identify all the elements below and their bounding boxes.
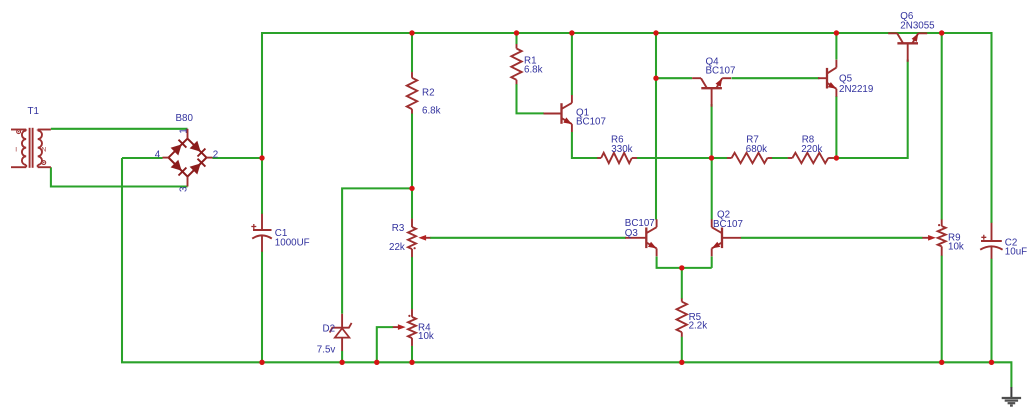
potentiometer R3 22k [408, 219, 430, 258]
svg-text:B80: B80 [176, 113, 194, 124]
wire Q2 emitter join [711, 257, 713, 268]
svg-text:10k: 10k [948, 241, 964, 252]
junction top rail R9 [939, 30, 944, 35]
resistor R7 680k [727, 153, 772, 163]
wire R8 to node [833, 157, 836, 159]
resistor R2 6.8k [407, 72, 417, 114]
svg-text:R2: R2 [422, 87, 435, 98]
wire node to R7 [712, 157, 728, 159]
svg-text:BC107: BC107 [706, 66, 736, 77]
svg-text:N: N [42, 146, 47, 153]
svg-text:R3: R3 [392, 223, 405, 234]
bridge diode D BL (4 to 3) [171, 160, 182, 171]
transistor Q6 2N3055 [888, 33, 927, 62]
transformer T1 [11, 128, 51, 168]
wire bridge dc- to left rail [122, 157, 163, 159]
svg-text:4: 4 [155, 150, 161, 161]
junction ground rail R4 [409, 360, 414, 365]
transistor Q4 BC107 [692, 78, 731, 107]
wire transformer bottom to bridge pin3 [51, 167, 188, 186]
wire top rail [262, 33, 992, 223]
wire node to R3 [411, 188, 413, 218]
potentiometer R9 10k [922, 219, 945, 255]
svg-text:BC107: BC107 [713, 219, 743, 230]
svg-text:3: 3 [178, 186, 189, 192]
resistor R1 6.8k [511, 44, 521, 84]
resistor R5 2.2k [677, 299, 687, 337]
junction ground rail C1 [259, 360, 264, 365]
wire R4 wiper to ground [377, 327, 393, 362]
wire D2 to ground rail [341, 351, 343, 363]
wire Q3 emitter join [657, 257, 712, 268]
junction ground rail C2 [989, 360, 994, 365]
wire R9 bottom to ground rail [941, 256, 943, 363]
wire bottom rail [122, 158, 1011, 388]
svg-text:Q5: Q5 [839, 73, 853, 84]
svg-text:2: 2 [213, 150, 218, 161]
junction bridge output node [259, 155, 264, 160]
junction emitter join node [679, 265, 684, 270]
bridge rectifier B80 [163, 129, 213, 187]
wire Q6 emitter to junction [928, 32, 942, 34]
wire Q5 emitter to node [835, 96, 837, 158]
transistor Q3 BC107 [625, 219, 656, 256]
wire R2 branch [411, 33, 413, 72]
bridge diode D TL (4 to 1) [171, 144, 182, 155]
svg-text:6.8k: 6.8k [422, 105, 441, 116]
zener diode D2 7.5v [330, 314, 352, 351]
svg-text:2N3055: 2N3055 [900, 21, 935, 32]
junction R6 R7 Q4 Q2 node [709, 155, 714, 160]
wire Q1 emitter to R6 [572, 132, 598, 158]
wire R4 to ground rail [411, 346, 413, 363]
svg-text:2N2219: 2N2219 [839, 84, 873, 95]
svg-text:2.2k: 2.2k [689, 320, 708, 331]
capacitor C2 10uF [980, 223, 1002, 259]
wire Q5 collector to rail [835, 33, 837, 60]
junction top rail Q5 collector [834, 30, 839, 35]
wire R3 to R4 [411, 257, 413, 309]
bridge diode D TR (1 to 2) [190, 141, 201, 152]
svg-text:D2: D2 [323, 323, 336, 334]
potentiometer R4 10k [393, 309, 416, 346]
resistor R6 330k [597, 153, 637, 163]
svg-text:1000UF: 1000UF [275, 237, 310, 248]
transistor Q5 2N2219 [818, 60, 836, 97]
junction ground rail D2 [339, 360, 344, 365]
junction ground rail R5 [679, 360, 684, 365]
wire C1 branch [261, 158, 263, 214]
svg-text:6.8k: 6.8k [524, 65, 543, 76]
junction top rail Q3 branch [653, 30, 658, 35]
wires drawn below [51, 33, 1012, 388]
junction Q4 collector node [653, 76, 658, 81]
wire Q1 collector to rail [571, 33, 573, 95]
wire node to R5 [681, 268, 683, 299]
wire R1 top [515, 33, 517, 44]
svg-text:T1: T1 [28, 106, 39, 117]
junction top rail R2 [409, 30, 414, 35]
svg-text:I: I [15, 146, 17, 153]
junction ground rail R9 [939, 360, 944, 365]
junction top rail R1 [514, 30, 519, 35]
wire node down to Q2 collector [711, 158, 713, 220]
wire node to Q6 base [836, 60, 907, 159]
svg-text:22k: 22k [389, 242, 405, 253]
svg-text:BC107: BC107 [576, 117, 606, 128]
wire R5 to ground rail [681, 337, 683, 363]
wire Q2 base to R9 wiper [741, 237, 923, 239]
wire R1 bottom to Q1 base [517, 84, 545, 113]
wire transformer top to bridge pin1 [51, 128, 188, 130]
wire R7 to R8 [772, 157, 788, 159]
junction top rail Q1 collector [569, 30, 574, 35]
junction R8 Q5 node [834, 155, 839, 160]
wire R3 wiper to Q3 base [430, 237, 626, 239]
wire Q6 collector stub to rail [836, 32, 888, 34]
wire rail to Q3 collector, through node at y78 [655, 33, 657, 220]
wire Q4 base down to node [711, 104, 713, 158]
capacitor C1 1000UF [251, 214, 271, 252]
wire node y78 to Q4 collector [656, 77, 692, 79]
wire R6 to node [637, 157, 712, 159]
wire C2 bottom to ground rail [990, 259, 992, 363]
svg-text:10k: 10k [418, 331, 434, 342]
wire rail junction to R9 [941, 33, 943, 220]
wire bridge dc+ to junction [213, 157, 263, 159]
wire node to D2 [342, 188, 412, 313]
wire Q4 emitter to Q5 base [732, 77, 820, 79]
svg-text:680k: 680k [746, 144, 767, 155]
svg-text:7.5v: 7.5v [317, 344, 336, 355]
bridge diode D BR (3 to 2) [190, 163, 201, 174]
resistor R8 220k [788, 153, 834, 163]
junction R2 D2 R3 node [409, 186, 414, 191]
svg-text:Q3: Q3 [625, 228, 639, 239]
junction ground rail R4 wiper [374, 360, 379, 365]
ground [1002, 387, 1021, 406]
svg-text:1: 1 [178, 128, 189, 133]
transistor Q2 BC107 [712, 219, 741, 256]
svg-text:330k: 330k [611, 144, 632, 155]
transistor Q1 BC107 [544, 95, 572, 132]
svg-text:220k: 220k [801, 144, 822, 155]
svg-text:10uF: 10uF [1005, 247, 1027, 258]
